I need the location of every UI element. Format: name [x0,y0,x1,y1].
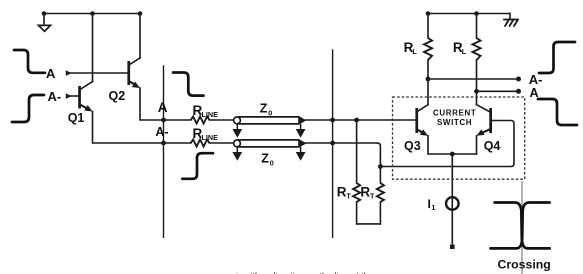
svg-text:0: 0 [268,109,272,118]
svg-text:A: A [46,66,56,81]
svg-text:Z: Z [260,102,268,116]
svg-text:Q2: Q2 [109,89,126,103]
svg-text:LINE: LINE [202,133,219,142]
svg-text:Q1: Q1 [68,111,85,125]
svg-text:SWITCH: SWITCH [437,118,472,127]
svg-text:L: L [412,47,417,56]
svg-text:R: R [337,184,347,199]
svg-text:Q3: Q3 [404,139,421,153]
svg-text:LINE: LINE [202,110,219,119]
svg-text:T: T [370,191,375,200]
svg-text:L: L [462,47,467,56]
svg-text:A-: A- [529,72,543,87]
svg-text:Q4: Q4 [484,139,501,153]
svg-text:Crossing: Crossing [498,258,551,272]
svg-text:0: 0 [270,159,274,168]
svg-text:A: A [158,100,168,115]
svg-text:CURRENT: CURRENT [433,109,476,118]
svg-text:A-: A- [155,125,168,139]
svg-text:R: R [360,184,370,199]
svg-text:Z: Z [261,152,269,166]
svg-text:T: T [346,191,351,200]
svg-text:1: 1 [431,203,435,212]
svg-text:A: A [530,86,539,100]
svg-text:A-: A- [48,89,62,104]
